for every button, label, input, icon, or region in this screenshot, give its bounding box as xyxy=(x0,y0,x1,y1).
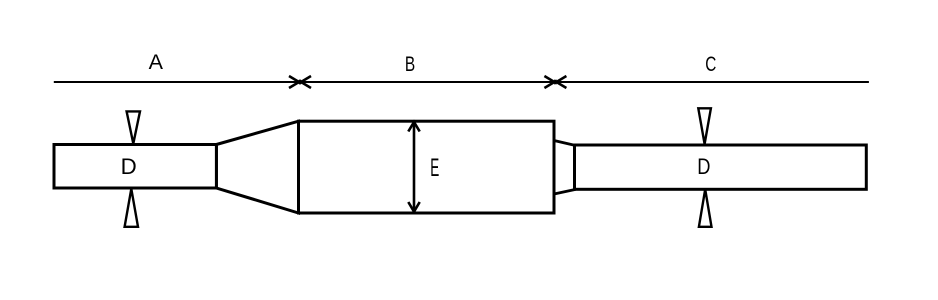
junction arrows between B and C xyxy=(544,76,566,88)
dimension line A-B-C xyxy=(54,81,869,83)
svg-text:D: D xyxy=(697,155,710,179)
dimension E arrow line xyxy=(413,123,416,212)
left pipe xyxy=(54,145,216,189)
right pipe xyxy=(575,145,867,189)
D marker above right pipe xyxy=(698,108,711,144)
D marker above left pipe xyxy=(127,111,140,143)
inlet cone xyxy=(216,121,298,213)
svg-text:B: B xyxy=(405,51,415,75)
svg-text:A: A xyxy=(149,50,164,74)
svg-text:E: E xyxy=(430,155,439,182)
E arrowhead top xyxy=(408,122,419,132)
muffler body xyxy=(299,121,555,213)
svg-text:C: C xyxy=(705,52,716,76)
D marker below left pipe xyxy=(125,189,138,227)
svg-text:D: D xyxy=(121,154,137,179)
E arrowhead bottom xyxy=(408,202,419,212)
D marker below right pipe xyxy=(699,189,712,227)
outlet cone xyxy=(554,141,575,195)
junction arrows between A and B xyxy=(289,76,311,88)
